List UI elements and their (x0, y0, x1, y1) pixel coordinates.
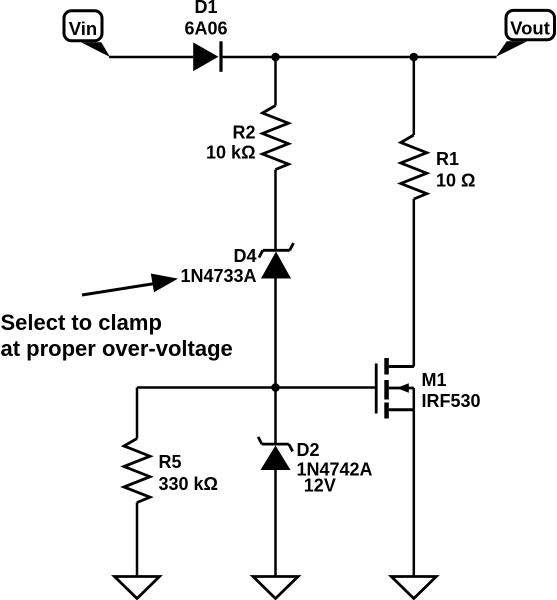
svg-text:D2: D2 (297, 440, 320, 460)
gate wire R5 to M1 gate (137, 386, 376, 389)
node A junction (D1/R2 net) (271, 53, 280, 62)
wire Vin to D1 anode (109, 56, 193, 59)
svg-text:10 Ω: 10 Ω (436, 171, 475, 191)
wire R2 to D4 cathode (274, 170, 277, 251)
wire D1 cathode to node A (221, 56, 276, 59)
wire node A down to R2 (274, 57, 277, 106)
svg-text:10 kΩ: 10 kΩ (206, 143, 255, 163)
label D2 1N4742A 12V (297, 440, 373, 496)
svg-text:at proper over-voltage: at proper over-voltage (1, 336, 233, 361)
svg-text:IRF530: IRF530 (422, 391, 481, 411)
zener diode D4 (259, 243, 294, 279)
ground under D2 (253, 577, 298, 599)
label R1 10 Ohm (436, 149, 475, 191)
svg-text:12V: 12V (304, 475, 336, 495)
ground under R5 (115, 577, 160, 599)
svg-text:330 kΩ: 330 kΩ (159, 474, 218, 494)
zener diode D2 (258, 437, 293, 470)
svg-text:Select to clamp: Select to clamp (1, 310, 162, 335)
wire node B to Vout (414, 56, 497, 59)
svg-text:R5: R5 (159, 452, 182, 472)
diode D1 (193, 41, 221, 72)
resistor R1 (401, 135, 427, 199)
label M1 IRF530 (422, 370, 481, 411)
annotation arrow to D4 (82, 274, 178, 296)
wire D2 anode to ground (274, 470, 277, 577)
resistor R5 (124, 439, 150, 503)
annotation text (1, 310, 233, 361)
label R5 330 kOhm (159, 452, 218, 494)
terminal Vin (64, 11, 110, 57)
resistor R2 (263, 106, 289, 170)
svg-text:D1: D1 (194, 0, 217, 17)
svg-text:M1: M1 (422, 370, 447, 390)
wire D4 anode to node C (274, 279, 277, 388)
label D1 6A06 (184, 0, 227, 39)
label R2 10 kOhm (206, 123, 255, 163)
wire node C to D2 cathode (274, 388, 277, 445)
wire R5 to ground (136, 503, 139, 577)
wire M1 source to ground (413, 410, 416, 577)
svg-text:6A06: 6A06 (184, 19, 227, 39)
wire node B down to R1 (413, 57, 416, 135)
wire node A to node B (276, 56, 414, 59)
svg-text:R1: R1 (436, 149, 459, 169)
terminal Vout (496, 10, 555, 56)
node B junction (R1/Vout net) (410, 53, 419, 62)
node C junction (gate net) (271, 383, 280, 392)
wire gate net down to R5 (136, 388, 139, 439)
svg-text:R2: R2 (232, 123, 255, 143)
svg-text:Vout: Vout (510, 18, 550, 39)
svg-text:1N4733A: 1N4733A (180, 266, 256, 286)
svg-text:D4: D4 (233, 246, 256, 266)
ground under M1 source (391, 577, 436, 599)
svg-text:Vin: Vin (69, 18, 97, 39)
label D4 1N4733A (180, 246, 256, 286)
wire R1 to M1 drain (413, 199, 416, 367)
mosfet M1 (376, 358, 414, 419)
